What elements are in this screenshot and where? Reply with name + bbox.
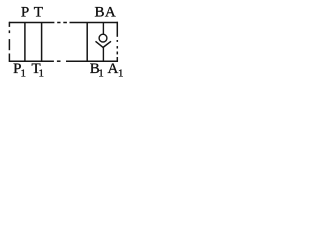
svg-text:1: 1 — [39, 67, 45, 79]
svg-text:B: B — [95, 5, 105, 21]
svg-text:1: 1 — [98, 67, 104, 79]
svg-text:A: A — [105, 5, 116, 21]
svg-text:1: 1 — [21, 67, 27, 79]
svg-text:A: A — [108, 61, 119, 77]
svg-text:T: T — [34, 5, 43, 21]
svg-text:1: 1 — [118, 67, 124, 79]
svg-text:P: P — [21, 5, 29, 21]
